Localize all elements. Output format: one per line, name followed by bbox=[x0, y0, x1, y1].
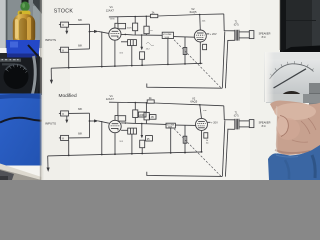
junction node/C3 (mod) bbox=[141, 123, 143, 125]
grey gear right of meter bbox=[309, 83, 320, 115]
wire OT bottom lead bbox=[227, 39, 234, 41]
tube V2 6AQ5 bbox=[194, 30, 206, 42]
wire long vertical A (mod) bbox=[222, 120, 225, 176]
wire J2 to node bbox=[69, 48, 90, 51]
input jack J2 (mod) bbox=[61, 135, 69, 140]
wire long vertical B bbox=[225, 41, 227, 89]
wire V2 grid (mod) bbox=[175, 124, 195, 126]
wire speaker leads bbox=[239, 31, 249, 33]
wire volume ground (mod) bbox=[170, 128, 172, 153]
ground symbol under J1 bbox=[66, 27, 68, 31]
junction jack tie bbox=[89, 31, 91, 33]
svg-text:68K: 68K bbox=[78, 19, 83, 22]
wire volume ground bbox=[167, 39, 169, 65]
transformer T1 windings (mod) bbox=[234, 119, 236, 130]
wire B+ rail left (mod) bbox=[109, 101, 147, 104]
wire rail corner to OT bbox=[224, 14, 235, 31]
highlight box 220K bbox=[138, 112, 146, 117]
paper left edge shadow bbox=[40, 0, 42, 180]
wire V2 plate riser bbox=[199, 15, 202, 31]
svg-text:V: V bbox=[62, 23, 64, 27]
speaker jack (mod) bbox=[249, 120, 254, 128]
svg-text:INPUTS: INPUTS bbox=[45, 38, 56, 42]
annotation +20V bbox=[206, 33, 209, 35]
wire V2 plate riser (mod) bbox=[200, 105, 202, 119]
black ledge band bbox=[283, 46, 320, 58]
svg-text:1: 1 bbox=[113, 28, 114, 30]
wire feedback diagonal (mod) bbox=[174, 129, 221, 176]
svg-text:12AX7: 12AX7 bbox=[106, 8, 115, 12]
junction rail/R6 (mod) bbox=[135, 102, 137, 104]
capacitor C2 decoupling bbox=[145, 16, 147, 26]
wire speaker leads (mod) bbox=[239, 120, 249, 122]
wire J2 to node (mod) bbox=[69, 137, 90, 139]
svg-text:68K: 68K bbox=[78, 133, 83, 136]
ground symbol under J1 (mod) bbox=[66, 116, 68, 120]
yellow ring bbox=[18, 11, 31, 16]
svg-text:V: V bbox=[62, 112, 64, 116]
dark instrument with dial bbox=[0, 58, 42, 96]
svg-text:2: 2 bbox=[109, 32, 110, 34]
annotation +20V (mod) bbox=[208, 121, 211, 123]
svg-text:68K: 68K bbox=[78, 108, 83, 111]
cable arc on mat bbox=[0, 118, 42, 123]
wire V2 cathode (mod) bbox=[201, 130, 203, 152]
cathode network R2/C4 (mod) bbox=[114, 133, 116, 155]
svg-text:6AQ5: 6AQ5 bbox=[190, 10, 197, 14]
cathode network R2/C4 bbox=[114, 40, 116, 66]
grey equipment panel top-left bbox=[0, 0, 42, 48]
capacitor C3 with arrow bbox=[141, 35, 143, 47]
wire V1 plate riser bbox=[115, 17, 118, 28]
capacitor C5 cathode bypass bbox=[203, 44, 207, 49]
wire V1 plate riser (mod) bbox=[115, 103, 118, 120]
wire B+ rail right bbox=[158, 15, 200, 17]
thumb bbox=[277, 116, 288, 136]
svg-text:+ 20V: + 20V bbox=[210, 32, 217, 36]
wire J2 sleeve to bus (mod) bbox=[68, 141, 70, 156]
hand holding the page bbox=[270, 101, 320, 156]
wire lower return (mod) bbox=[147, 172, 223, 177]
resistor R8 V2 grid leak (mod) bbox=[184, 125, 186, 152]
wire jack tie vertical bbox=[89, 24, 91, 49]
resistor R1 grid leak (mod) bbox=[101, 121, 103, 155]
resistor R6 plate 100K bbox=[134, 17, 136, 24]
STOCK schematic bbox=[45, 5, 271, 88]
svg-text:Modified: Modified bbox=[59, 93, 77, 99]
svg-text:68K: 68K bbox=[78, 44, 83, 47]
junction plate node bbox=[125, 34, 127, 36]
left photo strip: workbench scene bbox=[0, 0, 43, 180]
wire grid feed with arrow bbox=[90, 31, 95, 33]
wire grid feed with arrow (mod) bbox=[90, 120, 95, 122]
svg-text:INPUTS: INPUTS bbox=[45, 122, 56, 126]
wire rail corner to OT (mod) bbox=[224, 106, 235, 120]
svg-text:STOCK: STOCK bbox=[54, 8, 74, 14]
resistor R5 2k series bbox=[150, 14, 157, 17]
wire V2 cathode bbox=[199, 42, 201, 63]
wire feedback diagonal bbox=[174, 40, 221, 88]
potentiometer VOLUME 500K bbox=[162, 32, 173, 38]
highlight box 25 bbox=[146, 136, 153, 141]
paper right edge bbox=[279, 0, 280, 50]
highlight box .05 bbox=[150, 115, 156, 120]
ground bus bbox=[51, 63, 202, 68]
wire J1 to node bbox=[69, 23, 90, 25]
wire B+ rail right (mod) bbox=[154, 103, 200, 105]
meter scale arc bbox=[270, 64, 314, 79]
analog meter face bbox=[265, 52, 320, 102]
capacitor C2 decoupling (mod) bbox=[145, 103, 147, 113]
wire B+ rail left bbox=[109, 15, 150, 18]
resistor R6 plate (mod, changed) bbox=[134, 103, 136, 110]
wire lower return bbox=[147, 84, 223, 89]
wire J1 to node (mod) bbox=[69, 112, 90, 114]
svg-text:V: V bbox=[62, 48, 64, 52]
capacitor C1 box bbox=[118, 23, 126, 28]
tube V2 6AQ5 (mod) bbox=[196, 118, 208, 130]
junction rail/V2 plate bbox=[199, 14, 201, 16]
svg-text:8 Ω: 8 Ω bbox=[262, 125, 266, 128]
resistor R8 V2 grid leak bbox=[184, 37, 186, 64]
svg-text:(OT): (OT) bbox=[234, 25, 239, 27]
wire V2 grid bbox=[174, 36, 195, 39]
ground symbol main bbox=[50, 68, 52, 80]
svg-text:25J: 25J bbox=[146, 49, 150, 51]
svg-text:8 Ω: 8 Ω bbox=[262, 36, 266, 39]
speaker jack bbox=[249, 31, 254, 39]
svg-text:100K: 100K bbox=[127, 28, 133, 30]
junction rail/C2 (mod) bbox=[146, 102, 148, 104]
svg-text:+ 20V: + 20V bbox=[211, 121, 218, 125]
capacitor C3 with arrow (mod) bbox=[141, 124, 143, 136]
amber glass bulb bbox=[13, 14, 35, 46]
transformer T1 windings bbox=[234, 30, 236, 41]
ground symbol main (mod) bbox=[47, 156, 49, 168]
junction plate node (mod) bbox=[125, 122, 127, 124]
junction jack tie (mod) bbox=[89, 120, 91, 122]
knuckle creases bbox=[301, 121, 310, 134]
input jack J2 bbox=[61, 47, 69, 52]
input jack J1 (mod) bbox=[61, 111, 69, 116]
tube V1 12AX7 (mod) bbox=[109, 120, 121, 132]
wire plate node (mod) bbox=[121, 123, 166, 125]
junction node/C3 bbox=[141, 34, 143, 36]
input jack J1 bbox=[61, 22, 69, 27]
meter needle bbox=[274, 69, 307, 88]
svg-text:GRN: GRN bbox=[110, 19, 115, 21]
svg-text:500K: 500K bbox=[165, 37, 170, 39]
svg-text:(OT): (OT) bbox=[234, 116, 239, 118]
blue tube socket bbox=[6, 40, 40, 58]
right photo strip: gear, analog meter, hand bbox=[265, 0, 320, 180]
resistor R5 2k series (mod) bbox=[147, 100, 154, 103]
capacitor C1 box (mod) bbox=[118, 116, 126, 121]
junction rail/R7 bbox=[146, 15, 148, 17]
blue work mat bbox=[0, 94, 42, 166]
wire long vertical A bbox=[222, 32, 224, 88]
dial knob bbox=[4, 64, 29, 89]
wire OT bottom lead (mod) bbox=[227, 128, 234, 130]
paper sheet bbox=[0, 0, 320, 180]
Modified schematic bbox=[45, 93, 271, 177]
junction bus points bbox=[68, 67, 70, 69]
resistor R1 grid leak bbox=[101, 32, 103, 67]
glowing vacuum tube photo: green cap bbox=[22, 0, 29, 4]
instrument side bezel bbox=[33, 56, 36, 94]
svg-text:V: V bbox=[62, 137, 64, 141]
junction rail/V2 plate (mod) bbox=[199, 104, 201, 106]
svg-text:6AQ5: 6AQ5 bbox=[190, 99, 197, 103]
wire long vertical B (mod) bbox=[225, 129, 228, 176]
dark equipment top-right bbox=[280, 0, 320, 57]
potentiometer VOLUME 500K (mod) bbox=[166, 123, 175, 128]
wire jack tie vertical (mod) bbox=[89, 113, 91, 138]
table edge bottom-left bbox=[0, 164, 42, 181]
dark cable across socket bbox=[28, 45, 42, 60]
shadow under hand bbox=[275, 150, 310, 153]
band above hand bbox=[266, 94, 320, 103]
tube V1 12AX7 bbox=[109, 28, 121, 40]
capacitor C5 cathode bypass (mod) bbox=[204, 133, 208, 138]
ground bus (mod) bbox=[48, 152, 203, 156]
pencil note 25J bbox=[146, 43, 154, 46]
wire plate node bbox=[121, 33, 162, 36]
junction rail/R6 bbox=[134, 16, 136, 18]
wire J2 sleeve to bus bbox=[68, 52, 70, 67]
svg-text:12AX7: 12AX7 bbox=[106, 97, 115, 101]
svg-text:3: 3 bbox=[117, 39, 118, 41]
dark pivot cover bbox=[280, 91, 303, 108]
junction bus points (mod) bbox=[68, 155, 70, 157]
blue clothing bbox=[268, 145, 320, 180]
